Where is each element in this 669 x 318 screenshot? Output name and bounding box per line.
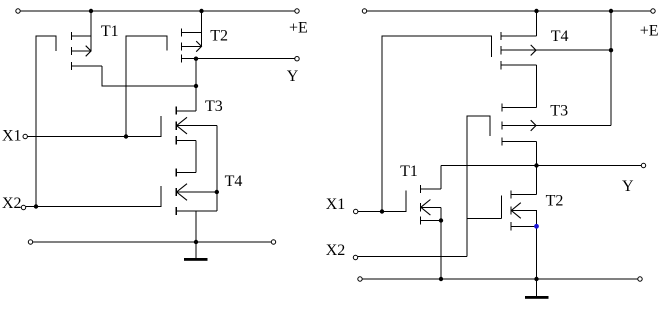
node: X2 / T1 gate branch: [34, 204, 38, 208]
wire: bottom (ground) rail right circuit: [363, 278, 638, 280]
terminals (left circuit): [16, 9, 299, 244]
wire: rail to substrate bus vertical: [610, 11, 612, 126]
wire: T1 gate lead from X2 net: [36, 36, 56, 207]
terminal: +E: [651, 9, 655, 13]
svg-text:+E: +E: [289, 20, 308, 37]
wire: substrate bus down to source: [216, 126, 218, 211]
transistor T3 channel dashes: [175, 107, 177, 145]
svg-text:T4: T4: [225, 173, 243, 190]
wire: X2 input line: [358, 256, 467, 258]
node: T4 substrate / substrate bus: [215, 190, 219, 194]
ground symbol (right circuit): [525, 296, 549, 299]
node: X1 / T2 gate branch: [124, 134, 128, 138]
transistor T1 channel dashes: [56, 29, 182, 216]
node: rail / T2 drain: [199, 9, 203, 13]
wire: bottom (ground) rail left circuit: [33, 241, 271, 243]
node: rail / T1 drain: [89, 9, 93, 13]
svg-text:T2: T2: [546, 192, 564, 209]
transistor T3 channel dashes: [501, 104, 503, 146]
junction dots (right circuit): [380, 9, 613, 281]
svg-text:Y: Y: [287, 68, 299, 85]
terminal: ground rail left end: [358, 277, 362, 281]
transistor T1 gate electrode: [55, 36, 57, 51]
svg-text:X1: X1: [2, 128, 22, 145]
transistor T4 source stub: [176, 210, 217, 212]
transistor T4 channel dashes: [175, 169, 177, 216]
transistor T3 substrate line to source net: [176, 125, 217, 127]
wire: T1 substrate/source down to ground rail: [440, 207, 442, 279]
transistor T1 source stub: [421, 220, 442, 222]
node: T2 source / substrate (blue dot): [534, 224, 539, 229]
transistor T3 source stub: [176, 140, 196, 142]
wire: T1 drain down and across to output node: [102, 66, 196, 86]
wire: output line Y: [441, 165, 641, 167]
transistor T3 gate electrode: [489, 116, 491, 136]
svg-text:X1: X1: [326, 196, 346, 213]
arrows (right circuit): [421, 45, 536, 218]
terminal: +E: [295, 9, 299, 13]
wire: T2 gate lead from X1 net: [126, 36, 167, 137]
transistor T1 channel dashes: [420, 185, 422, 225]
transistor T4 substrate line: [176, 191, 217, 193]
transistor T2 channel dashes: [510, 191, 512, 231]
transistor T4 gate electrode: [160, 186, 162, 207]
transistor T3 drain stub: [502, 141, 537, 143]
svg-text:T1: T1: [101, 23, 119, 40]
svg-text:T1: T1: [400, 163, 418, 180]
node: ground rail / T4 source: [194, 240, 198, 244]
transistor T2 gate electrode: [501, 196, 503, 219]
transistor T4 substrate arrow (p-channel): [531, 45, 536, 56]
wire: +E power rail (right circuit): [367, 10, 651, 12]
transistor T4 drain stub: [176, 172, 196, 174]
node: T1 source / substrate: [439, 218, 443, 222]
transistor T4 channel dashes: [500, 32, 502, 70]
svg-text:T3: T3: [550, 103, 568, 120]
transistor T3 top stub (source): [502, 107, 537, 109]
terminal: ground rail left end: [28, 240, 32, 244]
terminals (right circuit): [353, 9, 655, 281]
terminal: Y: [641, 163, 645, 167]
terminal: rail left end: [16, 9, 20, 13]
terminal: rail left end: [362, 9, 366, 13]
wire: T4 source vertical from rail: [536, 11, 538, 36]
svg-text:Y: Y: [622, 178, 634, 195]
terminal: Y: [295, 57, 299, 61]
wire: X2 input line and T4 gate: [26, 186, 161, 207]
svg-text:T2: T2: [210, 27, 228, 44]
arrows (left circuit): [86, 41, 202, 200]
transistor T2 substrate line: [182, 46, 202, 48]
node: rail / T4 source: [534, 9, 538, 13]
wire: T2 drain stub continuing as output line Y: [182, 58, 295, 60]
terminal: X1: [354, 209, 358, 213]
transistor T2 substrate arrow (n-channel): [511, 203, 521, 219]
transistor T2 source stub: [511, 225, 537, 227]
ground lead: [536, 279, 538, 296]
node: T4 substrate / bus: [609, 48, 613, 52]
wire: T2 drain vertical from rail: [201, 11, 203, 47]
transistor T3 substrate arrow (n-channel): [177, 117, 187, 134]
wire: T3 gate lead down to X2: [467, 116, 490, 257]
wire: X1 input line and T1 gate: [358, 191, 406, 212]
node: Y junction: [534, 163, 538, 167]
transistor T2 channel dashes: [181, 29, 183, 63]
transistor T3 drain stub: [176, 110, 196, 112]
node: Y output junction: [194, 57, 198, 61]
transistor T3 substrate line to +E bus: [502, 125, 611, 127]
transistor T4 substrate arrow (n-channel): [177, 184, 187, 201]
transistor T1 drain stub: [421, 188, 442, 190]
svg-text:T4: T4: [551, 28, 569, 45]
transistor T1 substrate arrow (p-channel): [86, 46, 91, 57]
transistor T1 gate electrode: [405, 191, 407, 212]
junction dots (left circuit): [34, 9, 219, 244]
transistor T1 top stub (source to rail): [72, 35, 92, 37]
svg-text:X2: X2: [326, 242, 346, 259]
transistor T2 substrate arrow (p-channel): [196, 41, 201, 52]
wire: Y node vertical down to T3: [195, 59, 197, 111]
transistor T1 substrate line: [72, 50, 92, 52]
ground lead: [195, 242, 197, 258]
wire: Y down to T2 drain: [536, 166, 538, 195]
transistor T2 substrate line to source: [511, 211, 537, 227]
terminal: X1: [23, 134, 27, 138]
node: ground rail / T2 source: [534, 277, 538, 281]
wire: T3 source to T4 drain: [195, 141, 197, 173]
node: ground rail / T1 source: [439, 277, 443, 281]
transistor T4 drain stub: [501, 64, 537, 66]
terminal: ground rail right end: [271, 240, 275, 244]
transistor T1 substrate arrow (n-channel): [421, 200, 431, 216]
terminal: X2: [21, 205, 25, 209]
wire: X1 input line and T3 gate: [28, 116, 162, 137]
transistor T4 substrate line to +E bus: [501, 49, 611, 51]
svg-text:+E: +E: [640, 22, 659, 39]
wire: T2 source down to ground rail: [536, 226, 538, 279]
wire: T4 gate lead down to X1: [382, 36, 492, 212]
transistor T4 gate electrode: [491, 36, 493, 57]
wire: Y down to T1 drain: [440, 166, 442, 190]
transistor T3 substrate arrow (p-channel): [531, 120, 536, 131]
transistor T2 gate electrode: [166, 36, 168, 51]
ground symbol (left circuit): [184, 258, 208, 261]
wire: T4 drain to T3 source: [536, 65, 538, 107]
node: rail / substrate bus: [609, 9, 613, 13]
wire: T3 drain down to Y: [536, 142, 538, 166]
transistor T2 top stub (source to rail): [182, 32, 202, 34]
node: T1 drain / Y vertical: [194, 84, 198, 88]
wire: +E power rail (left circuit): [21, 10, 295, 12]
transistor T1 drain stub: [72, 65, 103, 67]
transistor T3 gate electrode: [160, 116, 162, 137]
transistor T2 drain stub: [511, 194, 537, 196]
svg-text:T3: T3: [205, 98, 223, 115]
wire: T4 source down to ground rail: [195, 211, 197, 242]
wire: T1 drain vertical from rail: [90, 11, 92, 51]
transistor T1 substrate line: [421, 206, 442, 208]
transistor T4 top stub (source): [501, 35, 537, 37]
terminal: ground rail right end: [638, 277, 642, 281]
svg-text:X2: X2: [2, 195, 22, 212]
node: X1 / T4 gate branch: [380, 209, 384, 213]
terminal: X2: [353, 255, 357, 259]
wire: T2 gate lead to X2 net: [467, 218, 502, 220]
